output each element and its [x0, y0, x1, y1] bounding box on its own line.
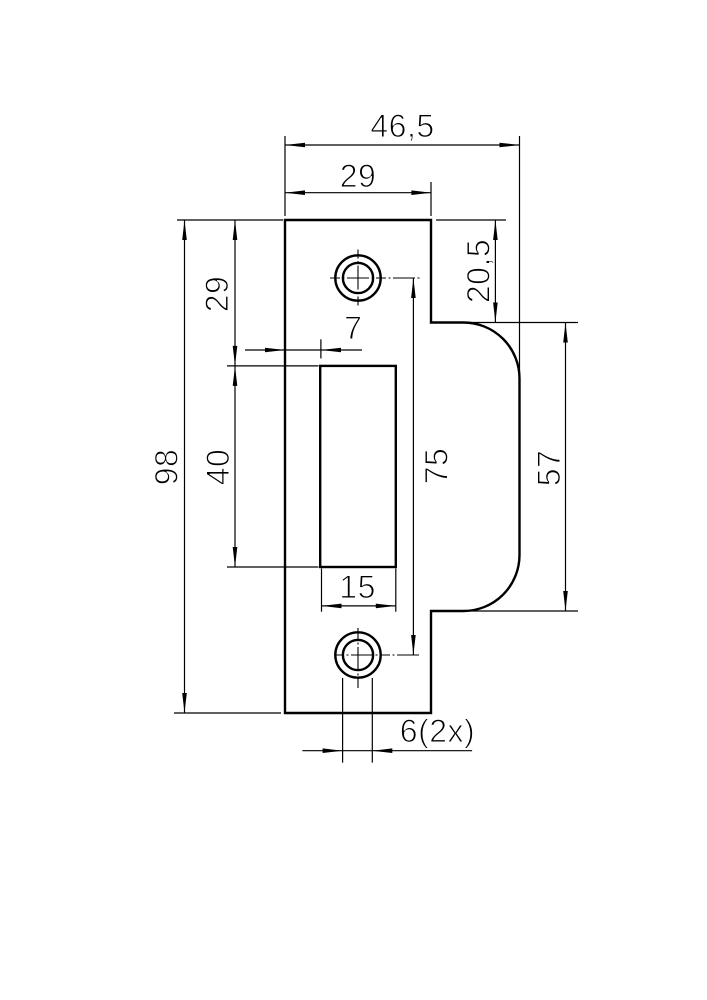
dimension 7 arrow right external: [321, 348, 341, 353]
dimension 29 left arrow bottom: [233, 346, 238, 366]
screw hole bottom inner: [343, 640, 373, 670]
svg-text:57: 57: [531, 450, 567, 487]
extension line left of plate top edge: [177, 219, 283, 221]
centerline bottom hole vertical: [357, 628, 359, 688]
svg-text:15: 15: [339, 569, 376, 605]
dimension 98 arrow bottom: [182, 693, 187, 713]
svg-text:20,5: 20,5: [461, 239, 497, 303]
dimension 40 arrow bottom: [233, 547, 238, 567]
dimension 46,5 arrow right: [500, 143, 520, 148]
svg-text:98: 98: [149, 449, 185, 486]
dimension 46,5 arrow left: [285, 143, 305, 148]
dimension 6 arrow right external: [372, 748, 392, 753]
extension line below cutout left for dim 15: [321, 569, 323, 612]
dimension 15 line: [322, 605, 396, 607]
dimension 40 arrow top: [233, 366, 238, 386]
dimension 98 arrow top: [182, 220, 187, 240]
extension line above plate right narrow edge: [430, 182, 432, 216]
svg-text:29: 29: [340, 158, 377, 194]
extension line above plate left edge: [284, 136, 286, 216]
dimension 6(2x) line: [302, 750, 472, 752]
dimension 7 line: [245, 349, 362, 351]
dimension 6 arrow left external: [323, 748, 343, 753]
latch cutout rectangle: [320, 366, 396, 567]
screw hole top inner: [343, 263, 373, 293]
screw hole top outer: [335, 255, 380, 300]
extension line left of cutout bottom: [227, 566, 319, 568]
svg-text:75: 75: [419, 448, 455, 485]
dimension 20,5 line: [494, 220, 496, 323]
dimension 75 arrow top: [411, 278, 416, 298]
dimension 15 arrow right: [376, 604, 396, 609]
extension line right of lip top edge: [462, 322, 578, 324]
extension line cutout left edge for dim 7: [320, 339, 322, 358]
dimension 15 arrow left: [322, 604, 342, 609]
svg-text:29: 29: [199, 276, 235, 313]
dimension 75 line: [412, 278, 414, 655]
dimension 57 line: [565, 323, 567, 612]
extension line above lip right edge: [519, 136, 521, 377]
dimension 98 line: [184, 220, 186, 713]
dimension 20,5 arrow top: [493, 220, 498, 240]
dimension 29 top arrow right: [411, 190, 431, 195]
extension line hole right for dim 6: [371, 678, 373, 763]
dimension 46,5 line: [285, 144, 520, 146]
svg-text:46,5: 46,5: [370, 108, 434, 144]
extension line below cutout right for dim 15: [395, 569, 397, 612]
extension line left of cutout top: [227, 365, 319, 367]
strike plate outline: [285, 220, 520, 713]
dimension 57 arrow top: [563, 323, 568, 343]
centerline top hole horizontal: [330, 277, 421, 279]
extension line hole left for dim 6: [342, 678, 344, 763]
svg-text:40: 40: [200, 449, 236, 486]
svg-text:6(2x): 6(2x): [400, 713, 475, 749]
centerline top hole vertical: [357, 250, 359, 309]
dimension 29 top arrow left: [285, 190, 305, 195]
extension line right of lip bottom edge: [470, 610, 578, 612]
extension line left of plate bottom edge: [174, 712, 281, 714]
dimension 57 arrow bottom: [563, 591, 568, 611]
centerline bottom hole horizontal: [334, 654, 421, 656]
dimension 29 left line: [234, 220, 236, 366]
dimension 7 arrow left external: [265, 348, 285, 353]
screw hole bottom outer: [335, 632, 380, 677]
extension line right of plate top edge: [436, 219, 506, 221]
svg-text:7: 7: [344, 310, 362, 346]
dimension 40 line: [234, 366, 236, 567]
dimension 29 top line: [285, 192, 431, 194]
dimension 29 left arrow top: [233, 220, 238, 240]
dimension 75 arrow bottom: [411, 635, 416, 655]
dimension 20,5 arrow bottom: [493, 303, 498, 323]
